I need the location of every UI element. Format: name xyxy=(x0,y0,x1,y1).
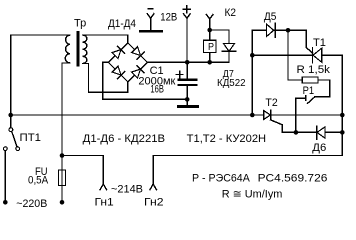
wire Т1 cathode line xyxy=(252,54,342,56)
node T1 cathode rail junction xyxy=(250,53,255,58)
connector Гн1 fork xyxy=(100,184,107,190)
connector К2 fork xyxy=(206,15,213,20)
node К2 junction xyxy=(207,28,212,33)
wire К2 to Д7 xyxy=(210,30,229,43)
svg-text:Д1-Д6 - КД221В: Д1-Д6 - КД221В xyxy=(83,133,165,145)
diode D1 (top-left edge) xyxy=(112,46,125,59)
node line B right xyxy=(340,130,345,135)
wire bridge minus to C1 bottom xyxy=(103,62,187,99)
svg-text:Р1: Р1 xyxy=(303,85,315,97)
switch ПТ1 xyxy=(3,115,19,151)
wire line B gate net xyxy=(282,131,342,133)
wire secondary bottom to bridge bottom vertex xyxy=(83,64,128,93)
svg-text:Д1-Д4: Д1-Д4 xyxy=(108,18,136,30)
svg-text:Гн2: Гн2 xyxy=(144,197,164,209)
wire Гн2 to thyristor output xyxy=(153,55,342,184)
ground bar xyxy=(177,105,199,108)
resistor R 1,5k xyxy=(302,77,318,83)
wire Р1 left down to line B xyxy=(295,98,297,132)
svg-text:ПТ1: ПТ1 xyxy=(20,132,42,144)
ground stem xyxy=(186,99,188,105)
transformer Тр primary winding xyxy=(65,35,70,63)
svg-text:Тр: Тр xyxy=(74,18,86,30)
terminal dot mains left xyxy=(3,200,8,205)
svg-text:Т1,Т2 - КУ202Н: Т1,Т2 - КУ202Н xyxy=(187,133,266,145)
node relay bottom xyxy=(207,60,212,65)
node rail A right xyxy=(340,113,345,118)
svg-text:Р - РЭС64А: Р - РЭС64А xyxy=(192,173,250,185)
svg-text:12В: 12В xyxy=(160,12,177,24)
capacitor C1 xyxy=(176,62,197,99)
transformer Тр secondary winding xyxy=(83,35,87,64)
node fuse top junction xyxy=(60,153,65,158)
svg-text:16В: 16В xyxy=(150,83,164,95)
wire Д5 branch down to rail A xyxy=(251,30,253,115)
node C1 top xyxy=(185,60,190,65)
wire mains left down xyxy=(4,151,6,203)
svg-text:Гн1: Гн1 xyxy=(95,197,114,209)
node rail A / T2 anode xyxy=(250,113,255,118)
node Д5 cathode xyxy=(286,28,291,33)
minus jack 12В with chassis bar xyxy=(139,8,163,33)
svg-text:К2: К2 xyxy=(225,7,237,19)
svg-text:0,5А: 0,5А xyxy=(28,175,49,187)
wire primary bottom lead xyxy=(62,62,70,64)
svg-text:Д5: Д5 xyxy=(264,11,277,23)
wire Д5 cathode down to R xyxy=(288,30,302,80)
svg-text:R 1,5k: R 1,5k xyxy=(297,64,331,76)
diode Д7 xyxy=(222,43,236,62)
svg-text:РС4.569.726: РС4.569.726 xyxy=(258,173,328,185)
svg-text:Т2: Т2 xyxy=(265,97,277,109)
thyristor Т2 xyxy=(264,110,283,132)
node C1 bottom xyxy=(185,97,190,102)
node line B left xyxy=(294,130,299,135)
connector Гн2 fork xyxy=(150,184,157,190)
svg-text:~214В: ~214В xyxy=(111,183,143,195)
svg-text:~220В: ~220В xyxy=(16,198,47,210)
terminal dot mains right xyxy=(60,200,65,205)
svg-text:Д6: Д6 xyxy=(312,142,326,154)
svg-text:R ≅ Um/Iym: R ≅ Um/Iym xyxy=(222,189,283,201)
fuse FU xyxy=(59,170,66,186)
wire secondary top to bridge xyxy=(83,35,128,43)
relay coil Р box xyxy=(209,30,211,40)
diode D4 (bottom-right edge) xyxy=(131,66,144,79)
diode Д5 xyxy=(266,23,275,37)
wire fuse column (primary bottom to mains right, crosses rail A) xyxy=(61,63,63,202)
diode Д6 xyxy=(317,126,326,139)
wire to Гн1 xyxy=(62,156,103,185)
wire К2 stem xyxy=(209,19,211,30)
svg-text:КД522: КД522 xyxy=(217,77,246,89)
wire +12 rail from bridge xyxy=(147,51,229,62)
diode bridge Д1-Д4 diamond xyxy=(108,43,147,82)
transformer core xyxy=(76,31,79,67)
node A (mains-left / rail junction) xyxy=(8,113,13,118)
wire R right to Р1 xyxy=(315,80,330,97)
wire Д5 anode branch xyxy=(252,29,288,31)
diode D2 (top-right edge) xyxy=(131,46,144,59)
relay contact Р1 xyxy=(296,96,315,104)
svg-text:Р: Р xyxy=(208,41,214,53)
wire rail A (mains phase rail) xyxy=(11,114,343,116)
plus jack 12В output xyxy=(183,6,190,62)
thyristor Т1 xyxy=(288,30,322,63)
svg-text:Т1: Т1 xyxy=(313,37,326,49)
diode D3 (bottom-left edge) xyxy=(112,66,125,79)
wire top-left from switch node up and right to primary top xyxy=(11,35,70,115)
